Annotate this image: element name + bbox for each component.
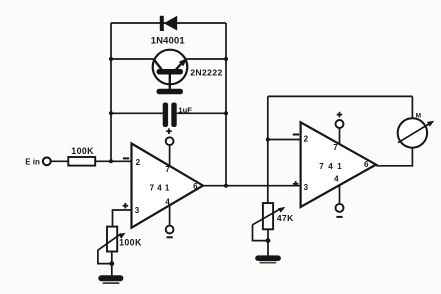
node left rail / U1 input <box>109 159 113 163</box>
svg-text:7: 7 <box>165 165 170 174</box>
wire input to op-amp U1 pin 2 <box>51 160 132 162</box>
wire capacitor row right <box>177 112 227 114</box>
junction node dots <box>109 57 270 266</box>
svg-text:47K: 47K <box>277 213 294 223</box>
svg-text:3: 3 <box>135 206 140 215</box>
svg-text:100K: 100K <box>119 238 142 248</box>
wire meter bottom to U2 output <box>376 148 412 166</box>
svg-text:2: 2 <box>304 134 309 143</box>
node right rail / U1 output <box>224 184 228 188</box>
node right rail / capacitor row <box>224 111 228 115</box>
minus sign U2 pin2 <box>293 134 299 136</box>
svg-text:2: 2 <box>136 158 141 167</box>
svg-text:741: 741 <box>319 162 346 171</box>
svg-text:4: 4 <box>165 197 170 206</box>
wire R3 wiper loop <box>253 225 269 241</box>
wire top feedback right stage <box>268 95 413 97</box>
terminal E in <box>25 157 50 166</box>
svg-text:6: 6 <box>193 182 198 191</box>
wire right vertical rail <box>225 23 227 186</box>
wire U2 pin 4 lead <box>339 185 341 204</box>
wire U2 pin 2 <box>268 139 301 141</box>
wire capacitor row left <box>111 112 163 114</box>
node R2 bottom <box>109 261 114 266</box>
wire meter top lead <box>411 96 413 118</box>
wire transistor row right <box>186 58 226 60</box>
op-amp U2 741 <box>301 122 376 207</box>
U2 V+ terminal pin7 <box>336 112 344 128</box>
svg-text:1N4001: 1N4001 <box>151 34 185 45</box>
U2 V- terminal pin4 <box>336 204 344 218</box>
U1 V+ terminal pin7 <box>166 128 174 145</box>
wire left vertical rail <box>110 23 112 161</box>
svg-text:6: 6 <box>364 160 369 169</box>
node right rail / transistor row <box>224 57 228 61</box>
minus sign U1 pin2 <box>123 157 129 159</box>
wire top feedback rail <box>111 22 226 24</box>
node left rail / transistor row <box>109 57 113 61</box>
svg-text:100K: 100K <box>71 146 94 156</box>
diode D1 1N4001 <box>160 16 177 31</box>
plus sign U1 pin3 <box>123 203 129 209</box>
svg-text:4: 4 <box>334 175 339 184</box>
meter M <box>398 112 435 147</box>
wire R2 wiper loop <box>98 250 112 264</box>
capacitor C1 1uF <box>163 103 177 128</box>
wire transistor row left <box>111 58 154 60</box>
wire U1 pin 3 to pot R2 <box>113 210 132 227</box>
potentiometer R3 47K <box>253 203 286 229</box>
wire R2 bottom to ground <box>111 252 113 276</box>
plus sign U2 pin3 <box>293 181 299 187</box>
ground (right) <box>255 255 281 263</box>
ground (left) <box>98 275 123 284</box>
resistor R1 100K <box>68 157 95 166</box>
wire R3 bottom to ground <box>267 229 269 255</box>
op-amp U1 741 <box>132 144 204 228</box>
svg-text:M: M <box>416 112 421 119</box>
node feedback / U2 pin2 <box>266 138 270 142</box>
svg-text:3: 3 <box>304 183 309 192</box>
svg-text:1uF: 1uF <box>178 105 192 114</box>
potentiometer R2 100K <box>98 227 126 252</box>
wire U1 output to U2 pin 3 <box>203 185 301 187</box>
transistor Q1 2N2222 <box>153 50 188 95</box>
node R3 bottom <box>266 238 271 243</box>
wire U1 pin 7 lead <box>169 145 171 165</box>
wire mid vertical (feedback / pot R3) <box>267 96 269 203</box>
U1 V- terminal pin4 <box>166 226 174 239</box>
wire U1 pin 4 lead <box>169 205 171 225</box>
svg-text:741: 741 <box>150 183 173 192</box>
svg-text:2N2222: 2N2222 <box>190 68 223 78</box>
svg-text:7: 7 <box>333 143 338 152</box>
svg-text:Ein: Ein <box>25 157 40 166</box>
node left rail / capacitor row <box>109 111 113 115</box>
wire U2 pin 7 lead <box>339 128 341 144</box>
